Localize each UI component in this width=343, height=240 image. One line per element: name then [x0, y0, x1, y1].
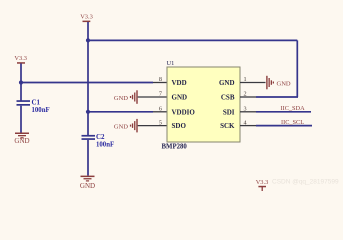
pin 5 lead	[138, 125, 167, 127]
pin 1 lead	[240, 82, 266, 84]
wire net IIC_SDA	[256, 111, 311, 113]
svg-text:C2: C2	[96, 133, 105, 141]
svg-text:GND: GND	[219, 79, 235, 87]
ground GND left	[14, 133, 29, 146]
pin 4 lead	[240, 125, 256, 127]
junction left rail / VDD wire	[19, 80, 23, 84]
ground GND at pin 1	[266, 76, 291, 90]
svg-text:100nF: 100nF	[32, 107, 50, 114]
svg-text:GND: GND	[80, 182, 95, 190]
svg-text:V3.3: V3.3	[14, 55, 27, 62]
svg-text:VDDIO: VDDIO	[172, 108, 196, 116]
pin 6 lead	[153, 111, 167, 113]
svg-text:GND: GND	[114, 124, 128, 131]
IC U1 BMP280 body	[167, 67, 240, 142]
ground GND at pin 5	[114, 119, 138, 132]
wire left rail upper (V3.3 bar to C1 top plate)	[20, 64, 22, 102]
capacitor C2	[82, 135, 96, 140]
wire VDDIO horizontal	[88, 111, 153, 113]
svg-text:CSB: CSB	[221, 94, 235, 102]
wire CSB feed vertical	[296, 40, 298, 97]
svg-text:8: 8	[159, 76, 162, 83]
capacitor C1	[17, 100, 31, 106]
svg-text:V3.3: V3.3	[80, 13, 93, 20]
power V3.3 top	[80, 13, 93, 22]
svg-text:6: 6	[159, 105, 162, 112]
junction C2 / VDDIO wire	[86, 110, 90, 114]
ground GND at pin 7	[114, 90, 138, 104]
wire CSB to feed	[256, 96, 298, 98]
svg-text:7: 7	[159, 91, 162, 98]
svg-text:5: 5	[159, 120, 162, 127]
power V3.3 bottom right	[256, 179, 269, 191]
svg-text:SDO: SDO	[172, 122, 187, 130]
svg-text:GND: GND	[277, 81, 291, 88]
junction V3.3 rail / CSB feed	[86, 38, 90, 42]
svg-text:SCK: SCK	[220, 122, 235, 130]
svg-text:U1: U1	[167, 60, 175, 67]
svg-text:100nF: 100nF	[96, 141, 114, 148]
svg-text:GND: GND	[114, 95, 128, 102]
ground GND below C2	[80, 176, 95, 190]
pin 7 lead	[138, 96, 167, 98]
svg-text:GND: GND	[172, 94, 188, 102]
pin 2 lead	[240, 96, 256, 98]
svg-text:GND: GND	[14, 137, 29, 145]
svg-text:IIC_SDA: IIC_SDA	[281, 105, 306, 112]
wire CSB feed horizontal	[88, 39, 297, 41]
svg-text:V3.3: V3.3	[256, 179, 269, 186]
wire VDD horizontal	[21, 82, 153, 84]
svg-text:CSDN @qq_28197599: CSDN @qq_28197599	[272, 179, 339, 186]
svg-text:BMP280: BMP280	[162, 144, 188, 151]
wire left rail lower (C1 bottom plate to GND)	[20, 106, 22, 133]
svg-text:SDI: SDI	[223, 108, 235, 116]
power V3.3 left	[14, 55, 27, 64]
svg-text:IIC_SCL: IIC_SCL	[281, 119, 304, 126]
svg-text:VDD: VDD	[172, 79, 187, 87]
svg-text:C1: C1	[32, 99, 41, 107]
pin 8 lead	[153, 82, 167, 84]
wire net IIC_SCL	[256, 125, 312, 127]
wire V3.3 rail vertical (top bar to C2 top plate)	[87, 22, 89, 136]
wire C2 rail lower (C2 bottom plate to GND)	[87, 140, 89, 176]
pin 3 lead	[240, 111, 256, 113]
